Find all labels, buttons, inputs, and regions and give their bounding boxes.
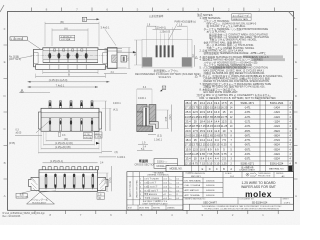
pcb plate under body [36, 65, 106, 70]
terminal pin exiting [150, 122, 158, 129]
right border ticks [294, 45, 298, 179]
scan noise overlay [0, 0, 1, 1]
dim (D) [46, 140, 92, 142]
datum A box [162, 86, 166, 89]
slot width 0.3 dim [59, 132, 61, 136]
footprint outline [142, 40, 192, 68]
small key squares between pins [53, 49, 82, 51]
side view vertical dim [128, 48, 130, 69]
top view left dim + labels [15, 135, 42, 137]
dimension chart grid [184, 100, 292, 165]
right wing step [99, 112, 102, 129]
left wing [34, 49, 43, 67]
left vertical dims [136, 40, 138, 65]
right nail pad [182, 57, 192, 66]
dim line row3 wide [28, 81, 110, 83]
pcb pattern dim row2 [153, 28, 182, 30]
section top-left block [137, 105, 147, 113]
note line 15 shaded [243, 55, 283, 58]
emboss tape box 1 [232, 14, 251, 17]
tolerance rows grid [127, 176, 183, 205]
pins (5) [48, 53, 87, 59]
leader 0.3 diagonal [36, 121, 50, 133]
top view right vertical dims [105, 101, 107, 131]
right vertical dim2 [111, 166, 113, 191]
section left wall [137, 112, 143, 126]
dim row above bottom view [43, 162, 98, 164]
centerline [31, 55, 111, 57]
dim under side view [104, 73, 127, 75]
frame border [8, 12, 294, 211]
small ref box right [97, 193, 105, 199]
left nail pad [142, 57, 152, 66]
general tolerance block outer [127, 172, 183, 210]
terminal slot [143, 107, 149, 126]
approvals column [222, 178, 224, 198]
vertical text cell 1 [132, 172, 134, 205]
units row [183, 177, 293, 179]
dim line row4 widest [28, 86, 99, 88]
left end block [29, 177, 39, 190]
front view body [43, 48, 98, 63]
note line 16 shaded [252, 58, 285, 61]
bottom border ticks [35, 210, 278, 214]
extension lines down to pads [147, 27, 188, 57]
right labels (3) [102, 150, 112, 152]
pins in bottom view [45, 174, 94, 177]
FCF box pair below body [84, 132, 93, 135]
center pads hatched [156, 45, 174, 57]
delta note line [19, 92, 50, 94]
tol bottom strip [138, 205, 166, 210]
right vertical dims of section [167, 110, 169, 129]
model no. header row [166, 166, 293, 172]
corner cut top-left [0, 5, 4, 12]
side view right [108, 48, 118, 69]
dim 1.25xN-1 [44, 144, 95, 146]
dim row4 widest [38, 152, 101, 154]
feature control frame over view [60, 35, 75, 38]
right end block [98, 177, 108, 190]
section right wall [149, 105, 156, 122]
dim line below 2 [36, 75, 106, 77]
leader from FCF to pin1 [27, 40, 44, 51]
nail detail box right [121, 56, 127, 63]
dim 5.4 [137, 150, 153, 152]
housing assy callout triangle [27, 192, 55, 204]
vertical text cell 2 [139, 172, 141, 205]
top pins (5) [49, 101, 93, 109]
front view dim line A second [52, 29, 88, 31]
side view hatch block [112, 55, 117, 63]
pin slots inside body [49, 119, 93, 132]
dim row3 [41, 148, 99, 150]
emboss tape box 2 [232, 17, 251, 20]
proprietary fine print row [190, 204, 294, 210]
top view body [41, 108, 99, 131]
top border ticks [31, 8, 274, 12]
front view dim line B top [45, 23, 99, 25]
title block outer [183, 172, 293, 211]
model no pointer box [154, 159, 178, 169]
bottom view comb teeth [42, 167, 98, 170]
section base [137, 126, 153, 132]
FCF box pair right [94, 132, 102, 135]
right wing [98, 49, 107, 67]
corner cut top-right [289, 12, 296, 19]
datum triangle [96, 142, 100, 145]
datum target B with arrow [82, 17, 86, 21]
extension lines [38, 130, 101, 154]
pcb pattern dim row1 left [147, 25, 157, 27]
datum FCF box left [10, 37, 27, 40]
pcb pattern dim row1 right [177, 25, 188, 27]
doc number row [183, 196, 293, 198]
left border ticks [4, 45, 8, 179]
fitting nail callout [16, 193, 27, 198]
third angle projection symbol [246, 173, 249, 176]
bottom view body [39, 170, 98, 192]
right vertical dim of bottom view [106, 173, 108, 191]
left wing step [38, 112, 41, 129]
datum arrow at side view [117, 51, 134, 53]
right vertical dims [194, 45, 196, 67]
dim line C below [43, 72, 98, 74]
